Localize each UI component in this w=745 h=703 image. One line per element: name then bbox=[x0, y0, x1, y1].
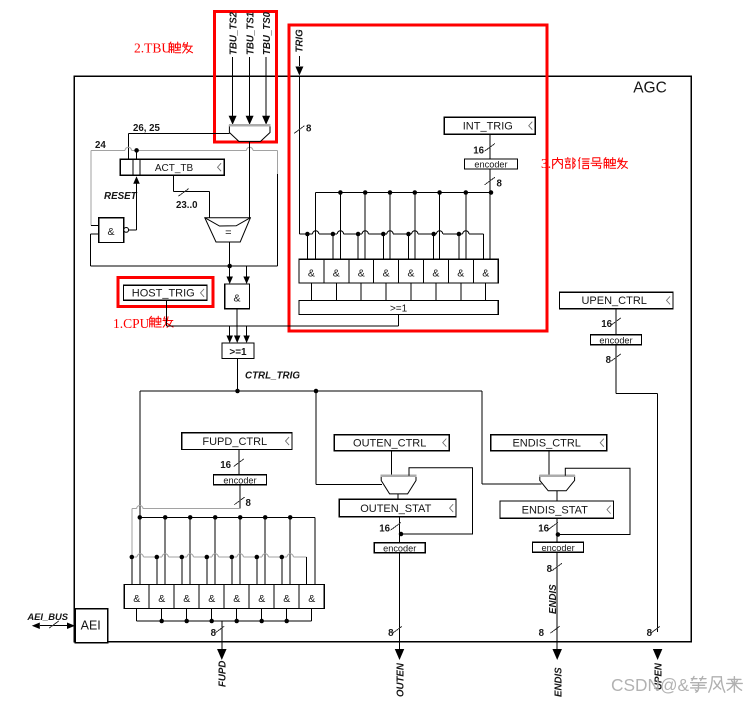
svg-text:&: & bbox=[457, 268, 464, 280]
wire gray encoder route left bbox=[132, 508, 137, 510]
svg-text:&: & bbox=[258, 593, 265, 605]
bus width 16 bbox=[611, 318, 621, 326]
svg-text:8: 8 bbox=[547, 564, 553, 575]
junction feedback tap bbox=[399, 532, 404, 537]
wire encoder out FUPD bbox=[239, 485, 241, 509]
svg-text:TBU_TS1: TBU_TS1 bbox=[245, 12, 256, 55]
svg-text:OUTEN_CTRL: OUTEN_CTRL bbox=[353, 437, 426, 449]
wire UPEN route to output bbox=[616, 393, 657, 395]
encoder OUTEN bbox=[374, 543, 425, 553]
svg-text:&: & bbox=[158, 593, 165, 605]
svg-text:&: & bbox=[432, 268, 439, 280]
svg-text:OUTEN_STAT: OUTEN_STAT bbox=[360, 503, 431, 515]
register FUPD_CTRL bbox=[182, 433, 292, 450]
wire FUPD_CTRL to encoder bbox=[238, 450, 240, 475]
bus FUPD select row bbox=[132, 556, 137, 558]
wires FUPD AND outputs bbox=[136, 608, 138, 621]
svg-text:>=1: >=1 bbox=[229, 347, 247, 358]
svg-text:8: 8 bbox=[606, 355, 612, 366]
svg-text:ENDIS: ENDIS bbox=[548, 584, 559, 614]
wire mux select 26,25 bbox=[128, 132, 229, 134]
svg-text:&: & bbox=[208, 593, 215, 605]
gate OR trigger combine bbox=[222, 343, 254, 359]
svg-text:ENDIS_CTRL: ENDIS_CTRL bbox=[512, 437, 580, 449]
wire ENDIS_CTRL to mux bbox=[548, 451, 550, 476]
wire INT OR output bbox=[398, 315, 400, 326]
svg-text:&: & bbox=[333, 268, 340, 280]
comparator EQ bbox=[205, 218, 251, 242]
bus TRIG row bbox=[299, 233, 312, 235]
svg-text:encoder: encoder bbox=[223, 476, 256, 486]
svg-text:TRIG: TRIG bbox=[295, 29, 306, 53]
wire bit 24 into ACT_TB bbox=[136, 150, 138, 159]
wire mux to OUTEN_STAT bbox=[397, 494, 399, 500]
svg-text:>=1: >=1 bbox=[390, 304, 408, 315]
bus width 8 on TRIG bbox=[294, 126, 304, 134]
mux ENDIS bbox=[540, 476, 575, 491]
junction FUPD row2 taps bbox=[130, 555, 135, 560]
junction TRIG row taps bbox=[305, 232, 310, 237]
encoder UPEN bbox=[591, 335, 642, 345]
svg-text:FUPD_CTRL: FUPD_CTRL bbox=[202, 436, 267, 448]
wire CTRL_TRIG left drop to FUPD array bbox=[139, 391, 141, 517]
bus width 8 bbox=[611, 354, 621, 362]
svg-text:&: & bbox=[482, 268, 489, 280]
bus width 8 FUPD bbox=[215, 626, 224, 633]
svg-text:8: 8 bbox=[497, 179, 503, 190]
bus width 8 bbox=[234, 497, 244, 505]
svg-text:FUPD: FUPD bbox=[218, 661, 229, 687]
svg-text:CSDN@&: CSDN@& bbox=[611, 675, 690, 695]
svg-text:16: 16 bbox=[538, 524, 549, 535]
svg-text:ENDIS: ENDIS bbox=[554, 667, 565, 697]
bus CTRL_TRIG horizontal bbox=[140, 390, 482, 392]
wire bit 26,25 dashed inside ACT_TB bbox=[127, 160, 129, 175]
wire ENDIS feedback bbox=[558, 468, 630, 534]
svg-text:&: & bbox=[233, 593, 240, 605]
svg-text:8: 8 bbox=[246, 498, 252, 509]
wire RESET arrow into ACT_TB bbox=[136, 182, 138, 230]
bus FUPD output collector bbox=[137, 620, 312, 622]
bus width 16 bbox=[391, 522, 401, 530]
svg-text:&: & bbox=[283, 593, 290, 605]
junction FUPD collector taps bbox=[159, 619, 164, 624]
register ACT_TB bbox=[120, 159, 224, 175]
junction CTRL_TRIG node bbox=[235, 389, 240, 394]
svg-text:INT_TRIG: INT_TRIG bbox=[463, 120, 513, 132]
bus width 16 bbox=[234, 459, 244, 467]
bus width 8 under encoder bbox=[552, 563, 562, 571]
wire TBU AND output bbox=[236, 309, 238, 336]
wire NAND input 1 bbox=[91, 224, 99, 226]
gate OR int-trigger bbox=[299, 301, 498, 315]
gate NAND U1 bbox=[99, 218, 124, 243]
svg-text:AGC: AGC bbox=[633, 80, 667, 97]
block AEI bbox=[75, 609, 108, 643]
register OUTEN_CTRL bbox=[334, 435, 449, 451]
wires FUPD row2 drops bbox=[131, 557, 133, 585]
wire gray left vertical to NAND bbox=[90, 150, 92, 225]
svg-text:OUTEN: OUTEN bbox=[396, 662, 407, 697]
svg-text:encoder: encoder bbox=[541, 543, 574, 553]
svg-text:8: 8 bbox=[388, 628, 394, 639]
junction bit 24 tap bbox=[134, 148, 139, 153]
wire AEI_BUS bidirectional bbox=[40, 625, 67, 627]
svg-text:UPEN_CTRL: UPEN_CTRL bbox=[581, 295, 646, 307]
mux OUTEN bbox=[381, 476, 416, 494]
AGC module border bbox=[74, 76, 691, 642]
register INT_TRIG bbox=[444, 117, 535, 134]
wire CTRL_TRIG to OUTEN mux select bbox=[315, 391, 317, 485]
wire CTRL_TRIG to ENDIS mux select bbox=[481, 391, 483, 484]
wire comparator result into AND bbox=[229, 266, 231, 277]
wire NAND input 2 bbox=[91, 233, 99, 235]
bus width 8 bbox=[485, 177, 495, 185]
svg-text:encoder: encoder bbox=[383, 544, 416, 554]
svg-text:&: & bbox=[383, 268, 390, 280]
wire comparator output bbox=[229, 242, 231, 266]
junction comparator output bbox=[227, 264, 232, 269]
wire mux to ENDIS_STAT bbox=[556, 491, 558, 501]
svg-text:16: 16 bbox=[220, 460, 231, 471]
wire right vertical of feedback bbox=[277, 174, 279, 266]
wire OUTEN output bbox=[399, 553, 401, 650]
encoder INT bbox=[465, 159, 518, 169]
svg-text:&: & bbox=[233, 293, 240, 305]
wire OUTEN_CTRL to mux bbox=[391, 451, 393, 476]
wires INT select drops bbox=[315, 193, 317, 260]
svg-text:AEI_BUS: AEI_BUS bbox=[26, 611, 68, 622]
wire UPEN_CTRL to encoder bbox=[615, 309, 617, 335]
encoder FUPD bbox=[214, 475, 267, 485]
wire gray bit 24 horizontal bbox=[91, 149, 125, 151]
gates AND FUPD bank bbox=[124, 585, 324, 609]
wire feedback horizontal bbox=[91, 265, 278, 267]
red highlight box: HOST_TRIG bbox=[118, 277, 213, 306]
svg-text:=: = bbox=[225, 227, 231, 239]
svg-text:16: 16 bbox=[379, 524, 390, 535]
svg-text:23..0: 23..0 bbox=[176, 200, 198, 211]
svg-text:&: & bbox=[308, 593, 315, 605]
register UPEN_CTRL bbox=[559, 292, 673, 308]
wire OUTEN feedback bbox=[401, 468, 473, 534]
wire ACT_TB 23..0 to comparator bbox=[172, 175, 174, 191]
wire gray right vertical bbox=[277, 150, 279, 174]
svg-text:&: & bbox=[358, 268, 365, 280]
wire TBU_TS1 into mux bbox=[249, 57, 251, 116]
junction OUTEN branch bbox=[314, 389, 319, 394]
junction ENDIS feedback tap bbox=[556, 532, 561, 537]
bus width 8 ENDIS bottom bbox=[550, 626, 559, 633]
svg-text:&: & bbox=[133, 593, 140, 605]
svg-text:24: 24 bbox=[95, 140, 106, 151]
svg-text:8: 8 bbox=[539, 628, 545, 639]
svg-text:encoder: encoder bbox=[599, 336, 632, 346]
bus width 8 OUTEN bbox=[393, 626, 402, 633]
gates AND int-trigger bank bbox=[299, 259, 498, 283]
wire OUTEN_STAT to encoder bbox=[399, 517, 401, 543]
svg-text:3.: 3. bbox=[541, 156, 551, 171]
svg-text:8: 8 bbox=[306, 124, 312, 135]
mux TBU timestamp select bbox=[229, 125, 270, 141]
svg-text:26, 25: 26, 25 bbox=[133, 123, 161, 134]
red highlight box: TBU trigger area bbox=[215, 12, 277, 143]
wire mux output to comparator bbox=[249, 141, 251, 217]
svg-text:16: 16 bbox=[473, 146, 484, 157]
svg-text:TBU_TS2: TBU_TS2 bbox=[228, 11, 239, 55]
wire TBU_TS0 into mux bbox=[265, 57, 267, 116]
junction FUPD row1 taps bbox=[138, 515, 143, 520]
wire encoder out UPEN bbox=[615, 345, 617, 394]
svg-text:8: 8 bbox=[647, 628, 653, 639]
svg-text:CTRL_TRIG: CTRL_TRIG bbox=[245, 371, 300, 382]
svg-text:ENDIS_STAT: ENDIS_STAT bbox=[522, 504, 588, 516]
register ENDIS_CTRL bbox=[491, 435, 607, 451]
wires TRIG row drops bbox=[306, 234, 308, 259]
bus width 8 UPEN bbox=[653, 649, 663, 660]
svg-text:2.TBU: 2.TBU bbox=[134, 41, 171, 56]
svg-text:1.CPU: 1.CPU bbox=[113, 316, 150, 331]
wire INT_TRIG to encoder bbox=[489, 134, 491, 159]
wire INT trigger into OR bbox=[246, 326, 248, 336]
bus INT select row bbox=[316, 192, 491, 194]
svg-text:&: & bbox=[407, 268, 414, 280]
wire TRIG into AGC bbox=[298, 56, 300, 66]
wires FUPD row1 drops bbox=[139, 517, 141, 584]
junction row1 taps bbox=[338, 190, 343, 195]
bus width 16 bbox=[548, 522, 558, 530]
wire ENDIS_STAT to encoder bbox=[556, 518, 558, 542]
wire TBU gate second input bbox=[246, 266, 248, 277]
wire HOST_TRIG output bbox=[165, 300, 167, 326]
svg-text:16: 16 bbox=[601, 319, 612, 330]
wire HOST_TRIG into OR bbox=[229, 326, 231, 336]
svg-text:ACT_TB: ACT_TB bbox=[155, 163, 194, 174]
bus FUPD ctrl row bbox=[140, 516, 315, 518]
svg-text:8: 8 bbox=[211, 628, 217, 639]
register ENDIS_STAT bbox=[500, 501, 614, 518]
bus width 16 bbox=[485, 143, 495, 151]
wire FUPD output bbox=[221, 621, 223, 650]
wire CTRL_TRIG from OR bbox=[237, 359, 239, 392]
svg-text:&: & bbox=[107, 226, 114, 238]
svg-text:encoder: encoder bbox=[474, 160, 507, 170]
svg-text:&: & bbox=[308, 268, 315, 280]
svg-text:AEI: AEI bbox=[81, 619, 101, 633]
svg-text:&: & bbox=[183, 593, 190, 605]
gate AND TBU trigger bbox=[225, 284, 250, 309]
svg-text:RESET: RESET bbox=[104, 191, 138, 202]
bus width 23..0 bbox=[179, 188, 189, 196]
wires AND outputs to OR bbox=[310, 283, 312, 301]
wire TRIG internal vertical bbox=[298, 77, 300, 235]
register HOST_TRIG bbox=[124, 285, 208, 300]
red highlight box: internal signal trigger area bbox=[289, 25, 547, 331]
wire ENDIS output bbox=[556, 552, 558, 650]
svg-text:TBU_TS0: TBU_TS0 bbox=[262, 11, 273, 55]
encoder ENDIS bbox=[533, 542, 584, 552]
register OUTEN_STAT bbox=[339, 499, 456, 516]
wire TBU_TS2 into mux bbox=[232, 57, 234, 116]
svg-text:HOST_TRIG: HOST_TRIG bbox=[132, 288, 195, 300]
wire encoder out bbox=[489, 169, 491, 193]
